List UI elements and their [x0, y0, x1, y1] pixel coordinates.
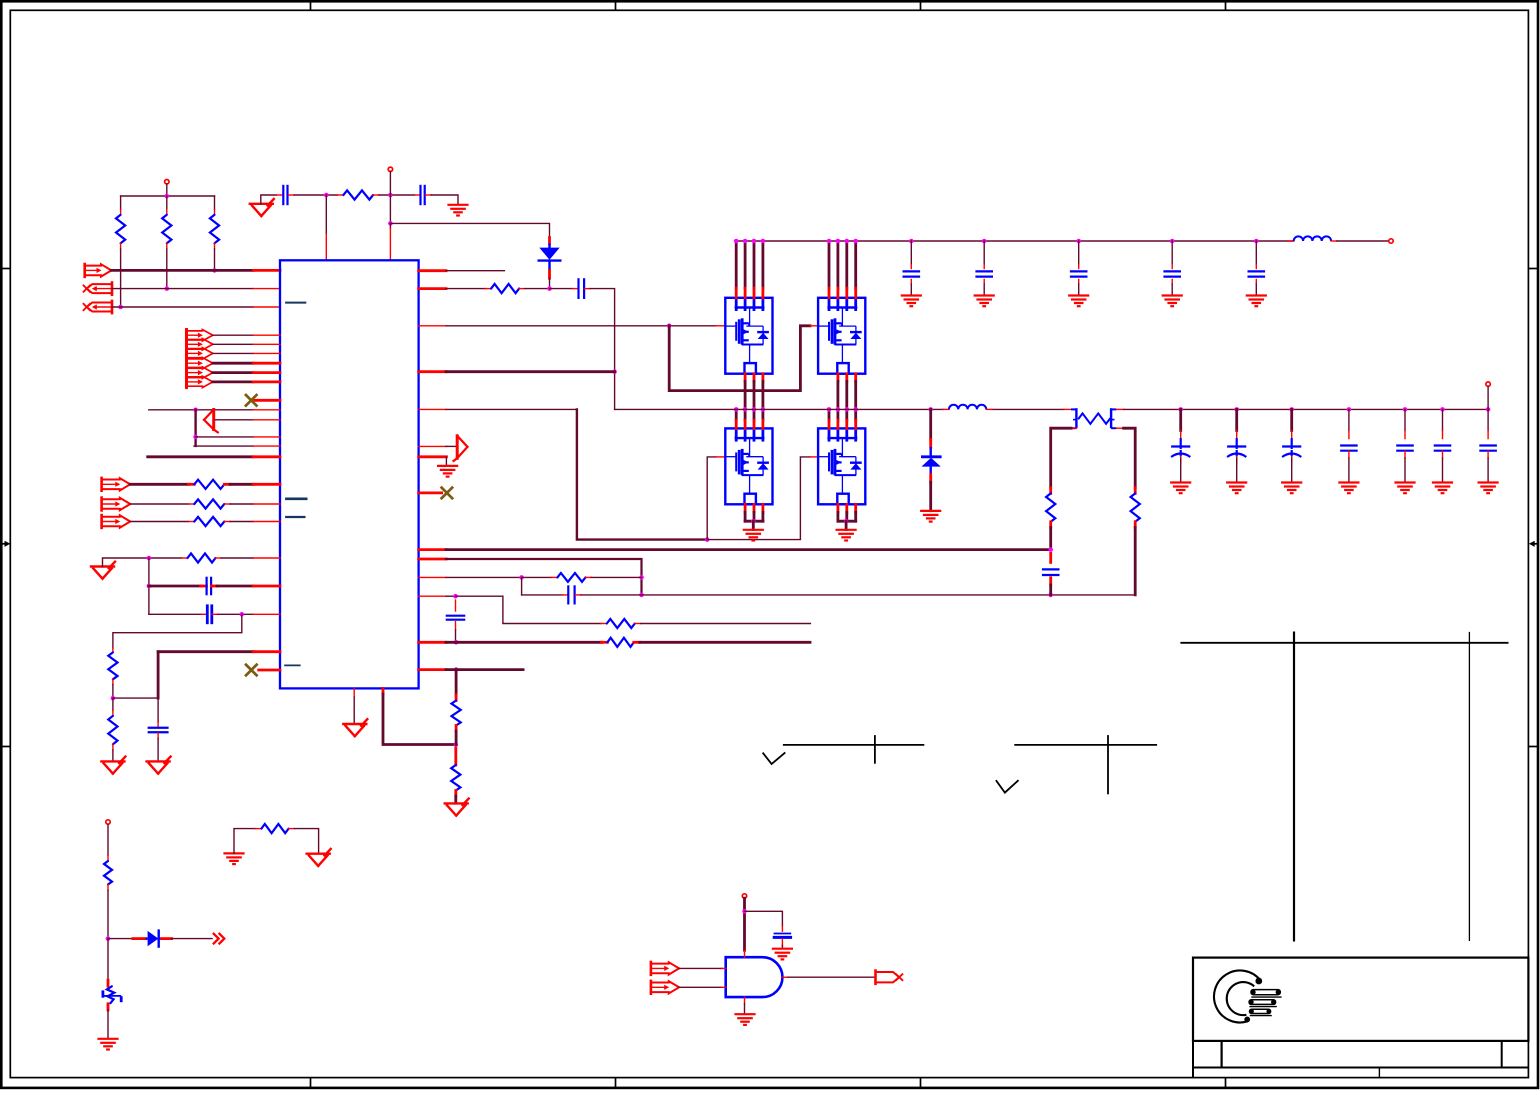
pin	[753, 374, 756, 382]
junction	[453, 594, 458, 599]
pin	[419, 595, 446, 597]
pin	[373, 194, 379, 196]
power ground	[920, 511, 941, 522]
wire	[172, 938, 213, 940]
pin	[289, 828, 295, 830]
pin	[1180, 456, 1182, 464]
wire	[1348, 458, 1350, 482]
transistor Q2	[818, 298, 865, 374]
wire	[1255, 241, 1257, 265]
junction	[1403, 407, 1408, 412]
pin	[548, 270, 551, 278]
resistor R16	[607, 638, 633, 647]
pin	[157, 733, 159, 739]
wire	[828, 241, 831, 288]
pin	[419, 287, 446, 290]
wire	[112, 306, 253, 308]
pin	[1348, 431, 1350, 439]
wire	[445, 457, 447, 466]
wire	[854, 382, 857, 410]
title block row line	[1193, 1067, 1528, 1069]
wire	[194, 445, 253, 447]
wire	[641, 623, 811, 625]
port BUS3	[187, 348, 213, 360]
pin	[983, 265, 985, 269]
wire	[157, 652, 160, 698]
junction	[836, 239, 841, 244]
pin	[1116, 427, 1123, 429]
wire	[762, 241, 765, 288]
pin	[253, 483, 280, 486]
pin	[548, 238, 551, 244]
wire	[149, 613, 201, 615]
resistor R5	[194, 480, 224, 489]
wire	[1255, 284, 1257, 295]
capacitor C4	[207, 604, 212, 624]
power port VCC3 circle	[742, 894, 746, 898]
wire	[390, 223, 549, 237]
pin	[353, 688, 355, 697]
pin	[828, 420, 831, 428]
wire	[157, 739, 159, 762]
AND gate U2	[726, 957, 783, 997]
pin	[1236, 431, 1238, 439]
pin	[744, 288, 747, 298]
right border ticks	[1528, 269, 1538, 747]
pin	[224, 503, 230, 505]
pin	[1180, 431, 1182, 439]
junction	[836, 407, 841, 412]
wire	[744, 409, 747, 420]
capacitor lead	[1236, 438, 1238, 449]
resistor R13	[491, 284, 519, 293]
wire	[325, 195, 327, 234]
wire	[1442, 458, 1444, 482]
wire	[446, 270, 504, 272]
wire	[446, 576, 522, 578]
pin	[716, 456, 725, 458]
pin	[419, 558, 446, 561]
junction	[667, 324, 672, 329]
power port VBAT circle	[106, 820, 110, 824]
wire	[217, 585, 253, 588]
pin	[983, 280, 985, 285]
pin	[601, 641, 607, 644]
capacitor lead	[1291, 450, 1293, 456]
junction	[1048, 547, 1053, 552]
wire	[446, 370, 615, 373]
pin	[1171, 280, 1173, 285]
wire	[828, 409, 831, 420]
pin	[455, 695, 458, 701]
pin	[455, 622, 457, 630]
wire	[234, 829, 255, 854]
resistor R19	[1131, 493, 1140, 521]
no connect X1	[246, 395, 257, 406]
pin	[762, 374, 765, 382]
capacitor C19	[1396, 446, 1414, 451]
revision table vertical line 2	[1468, 632, 1470, 941]
wire	[353, 697, 355, 724]
pin	[744, 504, 747, 512]
resistor R1	[116, 215, 125, 243]
resistor R10	[108, 716, 117, 744]
wire	[837, 409, 840, 420]
title block left edge	[1192, 1041, 1194, 1078]
pin	[601, 623, 607, 625]
wire	[1179, 409, 1182, 430]
capacitor C1	[283, 185, 287, 205]
pin	[120, 243, 122, 249]
junction	[1486, 407, 1491, 412]
signal arrow	[454, 436, 468, 461]
power ground	[343, 719, 367, 736]
pin	[1291, 431, 1293, 439]
wire	[196, 436, 254, 438]
resistor R11	[452, 701, 461, 726]
wire	[735, 241, 738, 288]
wire	[214, 196, 216, 210]
wire	[854, 512, 857, 521]
junction	[193, 435, 198, 440]
wire	[130, 483, 188, 486]
pin	[162, 937, 172, 940]
pin	[253, 371, 280, 374]
wire	[640, 641, 810, 644]
wire	[781, 945, 783, 948]
wire	[744, 382, 747, 410]
pin	[753, 420, 756, 428]
junction	[165, 286, 170, 291]
wire	[213, 343, 253, 345]
switch rail wire	[992, 408, 1064, 410]
wire	[550, 288, 573, 290]
junction	[845, 407, 850, 412]
wire	[762, 382, 765, 410]
pin	[1134, 488, 1137, 494]
power port VCC1 circle	[165, 180, 169, 184]
capacitor C9	[903, 271, 921, 276]
power ground	[307, 849, 331, 866]
resistor R9	[108, 652, 117, 679]
pin	[419, 641, 446, 644]
wire	[149, 409, 253, 411]
pin	[910, 280, 912, 285]
capacitor C3	[207, 577, 212, 596]
capacitor C20	[1434, 446, 1452, 451]
wire	[455, 731, 458, 745]
resistor R12	[451, 765, 460, 791]
power port VCC2 circle	[388, 167, 392, 171]
wire	[213, 371, 253, 374]
junction	[165, 194, 170, 199]
wire	[112, 685, 114, 699]
wire	[743, 898, 746, 950]
pin	[120, 210, 122, 215]
pin	[255, 828, 261, 830]
wire	[113, 697, 158, 699]
wire	[446, 445, 457, 447]
chassis ground	[974, 296, 995, 307]
resistor R21	[104, 861, 112, 885]
junction	[1440, 407, 1445, 412]
wire	[1180, 458, 1182, 482]
title block divider c	[1378, 1068, 1380, 1078]
port BUS4	[187, 357, 213, 369]
pin	[253, 409, 280, 411]
pin	[1116, 408, 1123, 410]
inductor L1	[1294, 236, 1331, 241]
pin	[454, 791, 457, 797]
wire	[929, 409, 932, 439]
resistor R4	[343, 190, 373, 199]
port IN2	[84, 283, 113, 295]
chassis ground	[223, 853, 244, 864]
wire	[120, 249, 122, 307]
wire	[929, 482, 932, 511]
wire	[1124, 428, 1136, 488]
wire	[230, 503, 253, 505]
chassis ground	[1162, 296, 1183, 307]
capacitor C17	[1282, 447, 1301, 458]
pin	[854, 504, 857, 512]
diode D2	[921, 447, 942, 474]
pin	[112, 711, 114, 716]
wire	[983, 241, 985, 265]
wire	[166, 184, 168, 196]
junction	[751, 519, 756, 524]
wire	[591, 576, 641, 578]
pin	[419, 455, 447, 458]
wire	[456, 596, 601, 623]
port BUS6	[187, 376, 213, 388]
junction	[111, 696, 116, 701]
wire	[854, 241, 857, 288]
pin	[1049, 488, 1052, 494]
pin	[182, 557, 188, 559]
port CTRL2	[102, 498, 131, 511]
company logo	[1214, 970, 1282, 1022]
pin	[211, 585, 217, 588]
chassis ground	[1246, 296, 1267, 307]
IC U1 pin name bar 2	[285, 497, 307, 500]
junction	[519, 575, 524, 580]
wire	[213, 352, 253, 354]
junction	[844, 519, 849, 524]
pin	[1487, 451, 1489, 458]
wire	[120, 196, 122, 210]
power ground	[1338, 483, 1359, 494]
junction	[454, 640, 459, 645]
transistor Q1	[725, 298, 772, 374]
pin	[112, 679, 114, 684]
pin	[735, 420, 738, 428]
wire	[112, 698, 114, 710]
power ground	[1226, 483, 1247, 494]
pin	[455, 600, 457, 611]
right border center arrow	[1529, 541, 1538, 547]
wire	[261, 195, 277, 204]
wire	[753, 382, 756, 410]
pin	[419, 548, 446, 551]
pin	[107, 855, 109, 861]
resistor R3	[210, 215, 219, 243]
pin	[253, 445, 280, 447]
capacitor C14	[1042, 569, 1060, 575]
pin	[253, 585, 280, 588]
capacitor C11	[1070, 271, 1088, 276]
capacitor C6	[579, 278, 585, 299]
wire	[735, 409, 738, 420]
wire	[1078, 284, 1080, 295]
wire	[1337, 240, 1389, 242]
pin	[1049, 553, 1052, 562]
pin	[562, 594, 568, 596]
wire	[1171, 241, 1173, 265]
capacitor C10	[975, 271, 993, 276]
port GIN1	[651, 962, 679, 975]
wire	[837, 512, 840, 521]
pin	[201, 613, 207, 615]
wire	[837, 241, 840, 288]
pin	[253, 352, 280, 354]
pin	[986, 408, 992, 410]
wire	[1078, 241, 1080, 265]
output rail wire	[1124, 408, 1489, 410]
port IN3	[84, 301, 113, 313]
wire	[454, 796, 457, 803]
wire	[130, 503, 188, 505]
resistor R15	[607, 619, 635, 628]
wire	[753, 409, 756, 420]
power port VOUT circle	[1486, 382, 1490, 386]
pin	[1348, 451, 1350, 458]
pin	[854, 374, 857, 382]
pin	[253, 306, 280, 308]
junction	[982, 239, 987, 244]
wire	[455, 670, 458, 695]
pin	[259, 669, 280, 672]
pin	[133, 937, 146, 940]
wire	[107, 890, 109, 938]
pin	[112, 744, 114, 750]
pin	[253, 650, 280, 653]
junction	[853, 239, 858, 244]
wire	[294, 194, 337, 196]
pin	[837, 504, 840, 512]
pin	[382, 688, 385, 694]
pin	[837, 374, 840, 382]
pin	[253, 613, 280, 615]
pin	[854, 420, 857, 428]
wire	[446, 559, 642, 595]
wire	[549, 278, 551, 288]
pin	[781, 939, 783, 945]
wire	[845, 241, 848, 288]
wire	[112, 288, 253, 290]
junction	[1254, 239, 1259, 244]
pin	[107, 885, 109, 891]
pin	[635, 623, 641, 625]
pin	[716, 325, 725, 327]
wire	[983, 284, 985, 295]
pin	[854, 288, 857, 298]
check mark structure 2	[996, 735, 1157, 794]
wire	[166, 196, 168, 210]
wire	[230, 521, 253, 523]
offsheet connector	[213, 933, 224, 944]
power ground	[1478, 483, 1499, 494]
pin	[762, 504, 765, 512]
pin	[455, 726, 458, 732]
wire	[1051, 428, 1071, 488]
resistor R14	[557, 573, 585, 582]
pin	[1049, 578, 1052, 585]
wire	[194, 410, 196, 446]
pin	[253, 521, 280, 523]
pin	[1442, 431, 1444, 439]
pin	[943, 408, 949, 410]
chassis ground	[97, 1039, 118, 1050]
wire	[1442, 409, 1444, 430]
pin	[255, 399, 280, 402]
pin	[845, 504, 848, 512]
wire	[581, 594, 1135, 596]
capacitor C13	[1248, 271, 1266, 276]
IC U1 pin name bar 3	[285, 516, 305, 518]
wire	[389, 223, 391, 228]
wire	[762, 409, 765, 420]
wire	[295, 829, 319, 854]
pin	[214, 210, 216, 215]
wire	[845, 512, 848, 521]
port IN1	[85, 264, 112, 277]
pin	[1071, 427, 1076, 429]
junction	[147, 556, 152, 561]
pin	[552, 576, 558, 578]
pin	[419, 370, 446, 373]
pin	[1064, 408, 1071, 410]
pin	[415, 194, 421, 196]
wire	[744, 512, 747, 521]
wire	[157, 698, 159, 722]
port GIN2	[651, 981, 679, 994]
pin	[1404, 451, 1406, 458]
power ground	[836, 530, 857, 541]
junction	[106, 936, 111, 941]
wire	[522, 594, 562, 596]
wire	[590, 289, 615, 410]
IC U1	[280, 260, 419, 688]
power port VIN circle	[1389, 239, 1393, 243]
port BUS5	[187, 367, 213, 379]
pin	[112, 648, 114, 652]
revision table header line	[1180, 642, 1508, 644]
capacitor C18	[1340, 446, 1358, 451]
title block logo box	[1193, 958, 1528, 1041]
power ground	[1170, 483, 1191, 494]
capacitor lead	[1236, 450, 1238, 456]
pin	[744, 420, 747, 428]
pin	[782, 976, 788, 978]
pin	[253, 557, 280, 559]
wire	[455, 630, 457, 642]
pin	[1078, 280, 1080, 285]
wire	[213, 334, 253, 336]
pin	[325, 234, 327, 260]
wire	[1134, 528, 1137, 595]
resistor R18	[1046, 493, 1055, 521]
